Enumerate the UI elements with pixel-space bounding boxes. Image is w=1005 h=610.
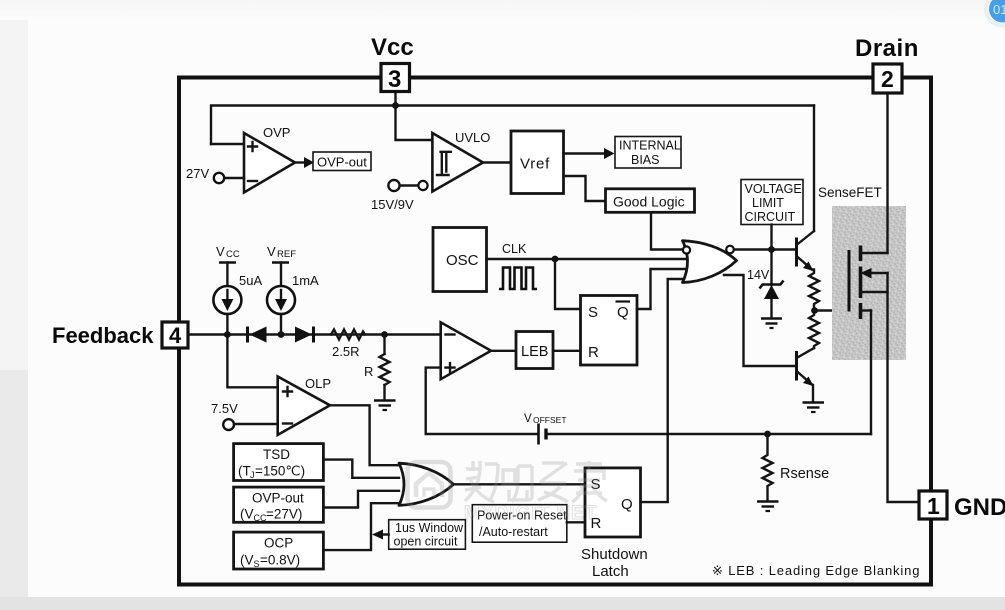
wire: Good Logic to NOR input [651, 213, 681, 250]
svg-text:CIRCUIT: CIRCUIT [745, 210, 796, 224]
ground (Rsense) [757, 502, 779, 512]
wire: NOR output to driver base [734, 248, 796, 250]
wire: Vref to Good Logic [564, 176, 606, 201]
svg-text:2.5R: 2.5R [332, 344, 359, 359]
box OVP-out [234, 487, 324, 523]
node: fb junction diodes [278, 331, 285, 338]
svg-text:CC: CC [226, 249, 240, 260]
transistor Q2 (lower NPN) [797, 348, 815, 402]
svg-text:S: S [254, 559, 260, 569]
wire: sense source down to rail [870, 311, 872, 435]
svg-text:V: V [267, 244, 276, 259]
svg-text:/Auto-restart: /Auto-restart [479, 525, 548, 539]
svg-text:1: 1 [927, 493, 940, 519]
svg-text:UVLO: UVLO [455, 130, 490, 145]
diode D2 [295, 327, 314, 343]
wire: pin3 drop to UVLO [396, 91, 433, 140]
node: CLK junction [552, 256, 559, 263]
badge (top-right corner) [986, 0, 1005, 26]
svg-text:1us Window: 1us Window [395, 521, 464, 535]
svg-text:OVP: OVP [263, 125, 290, 140]
box OCP [234, 532, 324, 569]
svg-text:15V/9V: 15V/9V [371, 197, 414, 212]
terminal 7.5V [211, 401, 278, 430]
node: Rsense junction [764, 431, 771, 438]
wire: POR to latch R [567, 521, 585, 523]
wire: OCP to OR2 [323, 503, 400, 550]
comparator OLP [227, 335, 331, 435]
transistor Q1 (upper NPN) [797, 231, 815, 271]
svg-text:(V: (V [240, 553, 254, 568]
wire: VLC down to rail [770, 225, 772, 250]
resistor (gate drive upper) [809, 270, 819, 311]
svg-text:OVP-out: OVP-out [317, 155, 367, 170]
wire: drain drop from pin 2 [886, 93, 888, 253]
wire: OLP out to OR2 [330, 405, 400, 465]
box Good Logic [606, 189, 695, 213]
IC boundary [179, 78, 931, 585]
pin 1 (GND) [919, 491, 1005, 521]
svg-text:14V: 14V [747, 268, 770, 282]
svg-text:VOLTAGE: VOLTAGE [745, 182, 802, 196]
svg-text:Feedback: Feedback [52, 323, 154, 348]
svg-text:open circuit: open circuit [394, 535, 458, 549]
svg-text:J: J [250, 470, 255, 480]
svg-text:MYDIGIT NET: MYDIGIT NET [464, 503, 597, 524]
wire: OVP-out to OR2 [323, 491, 399, 508]
current source Icc 5uA [213, 244, 262, 335]
wire: CLK line [487, 258, 690, 260]
wire: source down to pin 1 [888, 273, 920, 502]
box VOLTAGE LIMIT CIRCUIT [741, 180, 803, 225]
diode D1 [248, 327, 267, 343]
wire: OVP output arrow [295, 157, 314, 168]
svg-text:TSD: TSD [263, 447, 290, 462]
svg-text:Good Logic: Good Logic [613, 194, 685, 210]
box LEB [516, 332, 553, 369]
svg-text:V: V [524, 413, 532, 425]
wire: OVP plus input elbow [211, 143, 244, 145]
wire: CLK junction down to latch S [555, 259, 581, 309]
pin 3 (Vcc) [371, 34, 414, 93]
svg-text:01: 01 [993, 2, 1005, 17]
wire: driver rail from top [813, 106, 815, 232]
box INTERNAL BIAS [615, 137, 681, 169]
wire: OR2 output to shutdown latch S [453, 483, 585, 485]
wire: comparator to LEB [491, 350, 516, 352]
pin 2 (Drain) [855, 35, 919, 93]
svg-text:V: V [216, 244, 225, 259]
SenseFET shaded region [832, 206, 906, 360]
svg-text:CC: CC [254, 513, 267, 523]
svg-text:Latch: Latch [592, 563, 629, 580]
svg-text:S: S [588, 304, 598, 321]
svg-text:OFFSET: OFFSET [533, 415, 567, 425]
svg-text:R: R [588, 344, 599, 361]
resistor 2.5R [331, 330, 365, 360]
svg-text:GND: GND [954, 494, 1005, 521]
svg-text:3: 3 [388, 66, 401, 93]
resistor Rsense [763, 434, 830, 501]
svg-text:Q: Q [621, 496, 633, 513]
latch Shutdown [585, 468, 641, 537]
box OVP-out [313, 152, 371, 171]
svg-text:=0.8V): =0.8V) [260, 553, 300, 568]
wire: Qbar to NOR input [637, 269, 688, 309]
clock pulse glyph [499, 268, 537, 290]
ground (Q2 emitter) [803, 403, 825, 413]
resistor R [364, 335, 390, 401]
node: gate node [811, 307, 818, 314]
svg-text:27V: 27V [186, 166, 209, 181]
resistor (gate drive lower) [809, 311, 819, 349]
svg-text:Drain: Drain [855, 35, 919, 62]
svg-text:INTERNAL: INTERNAL [619, 139, 681, 153]
SenseFET MOSFET symbol [849, 246, 888, 320]
node: fb junction 1 [224, 331, 231, 338]
wire: shutdown Q up to NOR [641, 279, 685, 502]
svg-text:7.5V: 7.5V [211, 401, 238, 416]
wire: LEB to latch R [553, 350, 581, 352]
battery Voffset [524, 413, 567, 445]
watermark [408, 461, 608, 524]
svg-text:2: 2 [881, 66, 894, 92]
wire: Voffset rail [426, 368, 537, 434]
svg-text:Vcc: Vcc [371, 34, 414, 61]
wire: UVLO to Vref [483, 161, 511, 163]
gate NOR driver [683, 241, 737, 283]
ground (R) [374, 401, 396, 411]
terminal 27V [186, 166, 244, 183]
box 1us window [372, 520, 465, 550]
comparator PWM [441, 322, 491, 379]
box Power-on Reset [472, 505, 567, 543]
wire: top inner rail [211, 106, 814, 145]
comparator UVLO [432, 130, 490, 192]
svg-text:OVP-out: OVP-out [252, 491, 304, 506]
wire: gate lead [815, 309, 850, 311]
op-amp OVP [244, 125, 295, 193]
svg-text:※ LEB : Leading Edge Blanking: ※ LEB : Leading Edge Blanking [712, 563, 920, 578]
svg-text:(T: (T [238, 464, 251, 479]
ground (zener) [761, 319, 782, 329]
box OSC [433, 228, 487, 292]
svg-text:REF: REF [277, 249, 296, 260]
wire: TSD to OR2 [323, 460, 399, 478]
box TSD [234, 444, 324, 481]
svg-text:1mA: 1mA [292, 273, 319, 288]
node: rail junction under pin 3 [392, 102, 399, 109]
svg-text:Rsense: Rsense [780, 466, 829, 482]
svg-text:=27V): =27V) [266, 507, 302, 522]
svg-text:OSC: OSC [446, 252, 479, 269]
svg-text:LIMIT: LIMIT [752, 196, 784, 210]
pin 4 (Feedback) [52, 322, 188, 348]
wire: feedback line [188, 333, 441, 335]
svg-text:LEB: LEB [521, 344, 548, 360]
node: zener junction [768, 246, 775, 253]
svg-text:=150℃): =150℃) [255, 464, 305, 479]
wire: Vref to INTERNAL BIAS arrow [564, 148, 615, 159]
svg-text:OLP: OLP [305, 376, 331, 391]
gate OR2 (shutdown OR) [399, 463, 454, 505]
svg-text:BIAS: BIAS [631, 153, 660, 167]
svg-text:CLK: CLK [502, 242, 527, 256]
svg-text:R: R [364, 364, 373, 379]
svg-text:4: 4 [169, 323, 182, 348]
terminal 15V/9V [371, 180, 428, 212]
current source Iref 1mA [267, 244, 319, 335]
svg-text:(V: (V [240, 507, 254, 522]
svg-text:OCP: OCP [264, 536, 293, 551]
svg-text:SenseFET: SenseFET [818, 185, 882, 200]
box Vref [511, 131, 564, 194]
wire: lower drive loop [724, 275, 797, 366]
svg-text:Vref: Vref [520, 156, 550, 173]
svg-text:Q: Q [617, 304, 629, 321]
svg-text:Shutdown: Shutdown [581, 546, 648, 563]
svg-text:5uA: 5uA [239, 273, 262, 288]
latch S/Q (PWM latch) [581, 296, 638, 366]
node: fb junction R [381, 331, 388, 338]
zener 14V [747, 250, 784, 319]
